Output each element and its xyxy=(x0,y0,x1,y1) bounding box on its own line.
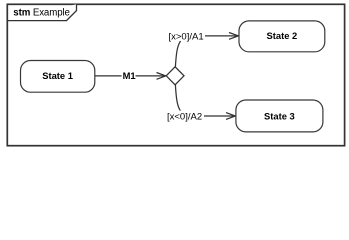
svg-text:[x<0]/A2: [x<0]/A2 xyxy=(167,112,202,123)
svg-text:State 1: State 1 xyxy=(42,70,73,81)
svg-text:State 2: State 2 xyxy=(267,30,298,41)
svg-text:stm Example: stm Example xyxy=(13,8,70,19)
svg-text:[x>0]/A1: [x>0]/A1 xyxy=(169,31,204,42)
svg-text:M1: M1 xyxy=(123,70,136,81)
svg-text:State 3: State 3 xyxy=(264,110,295,121)
